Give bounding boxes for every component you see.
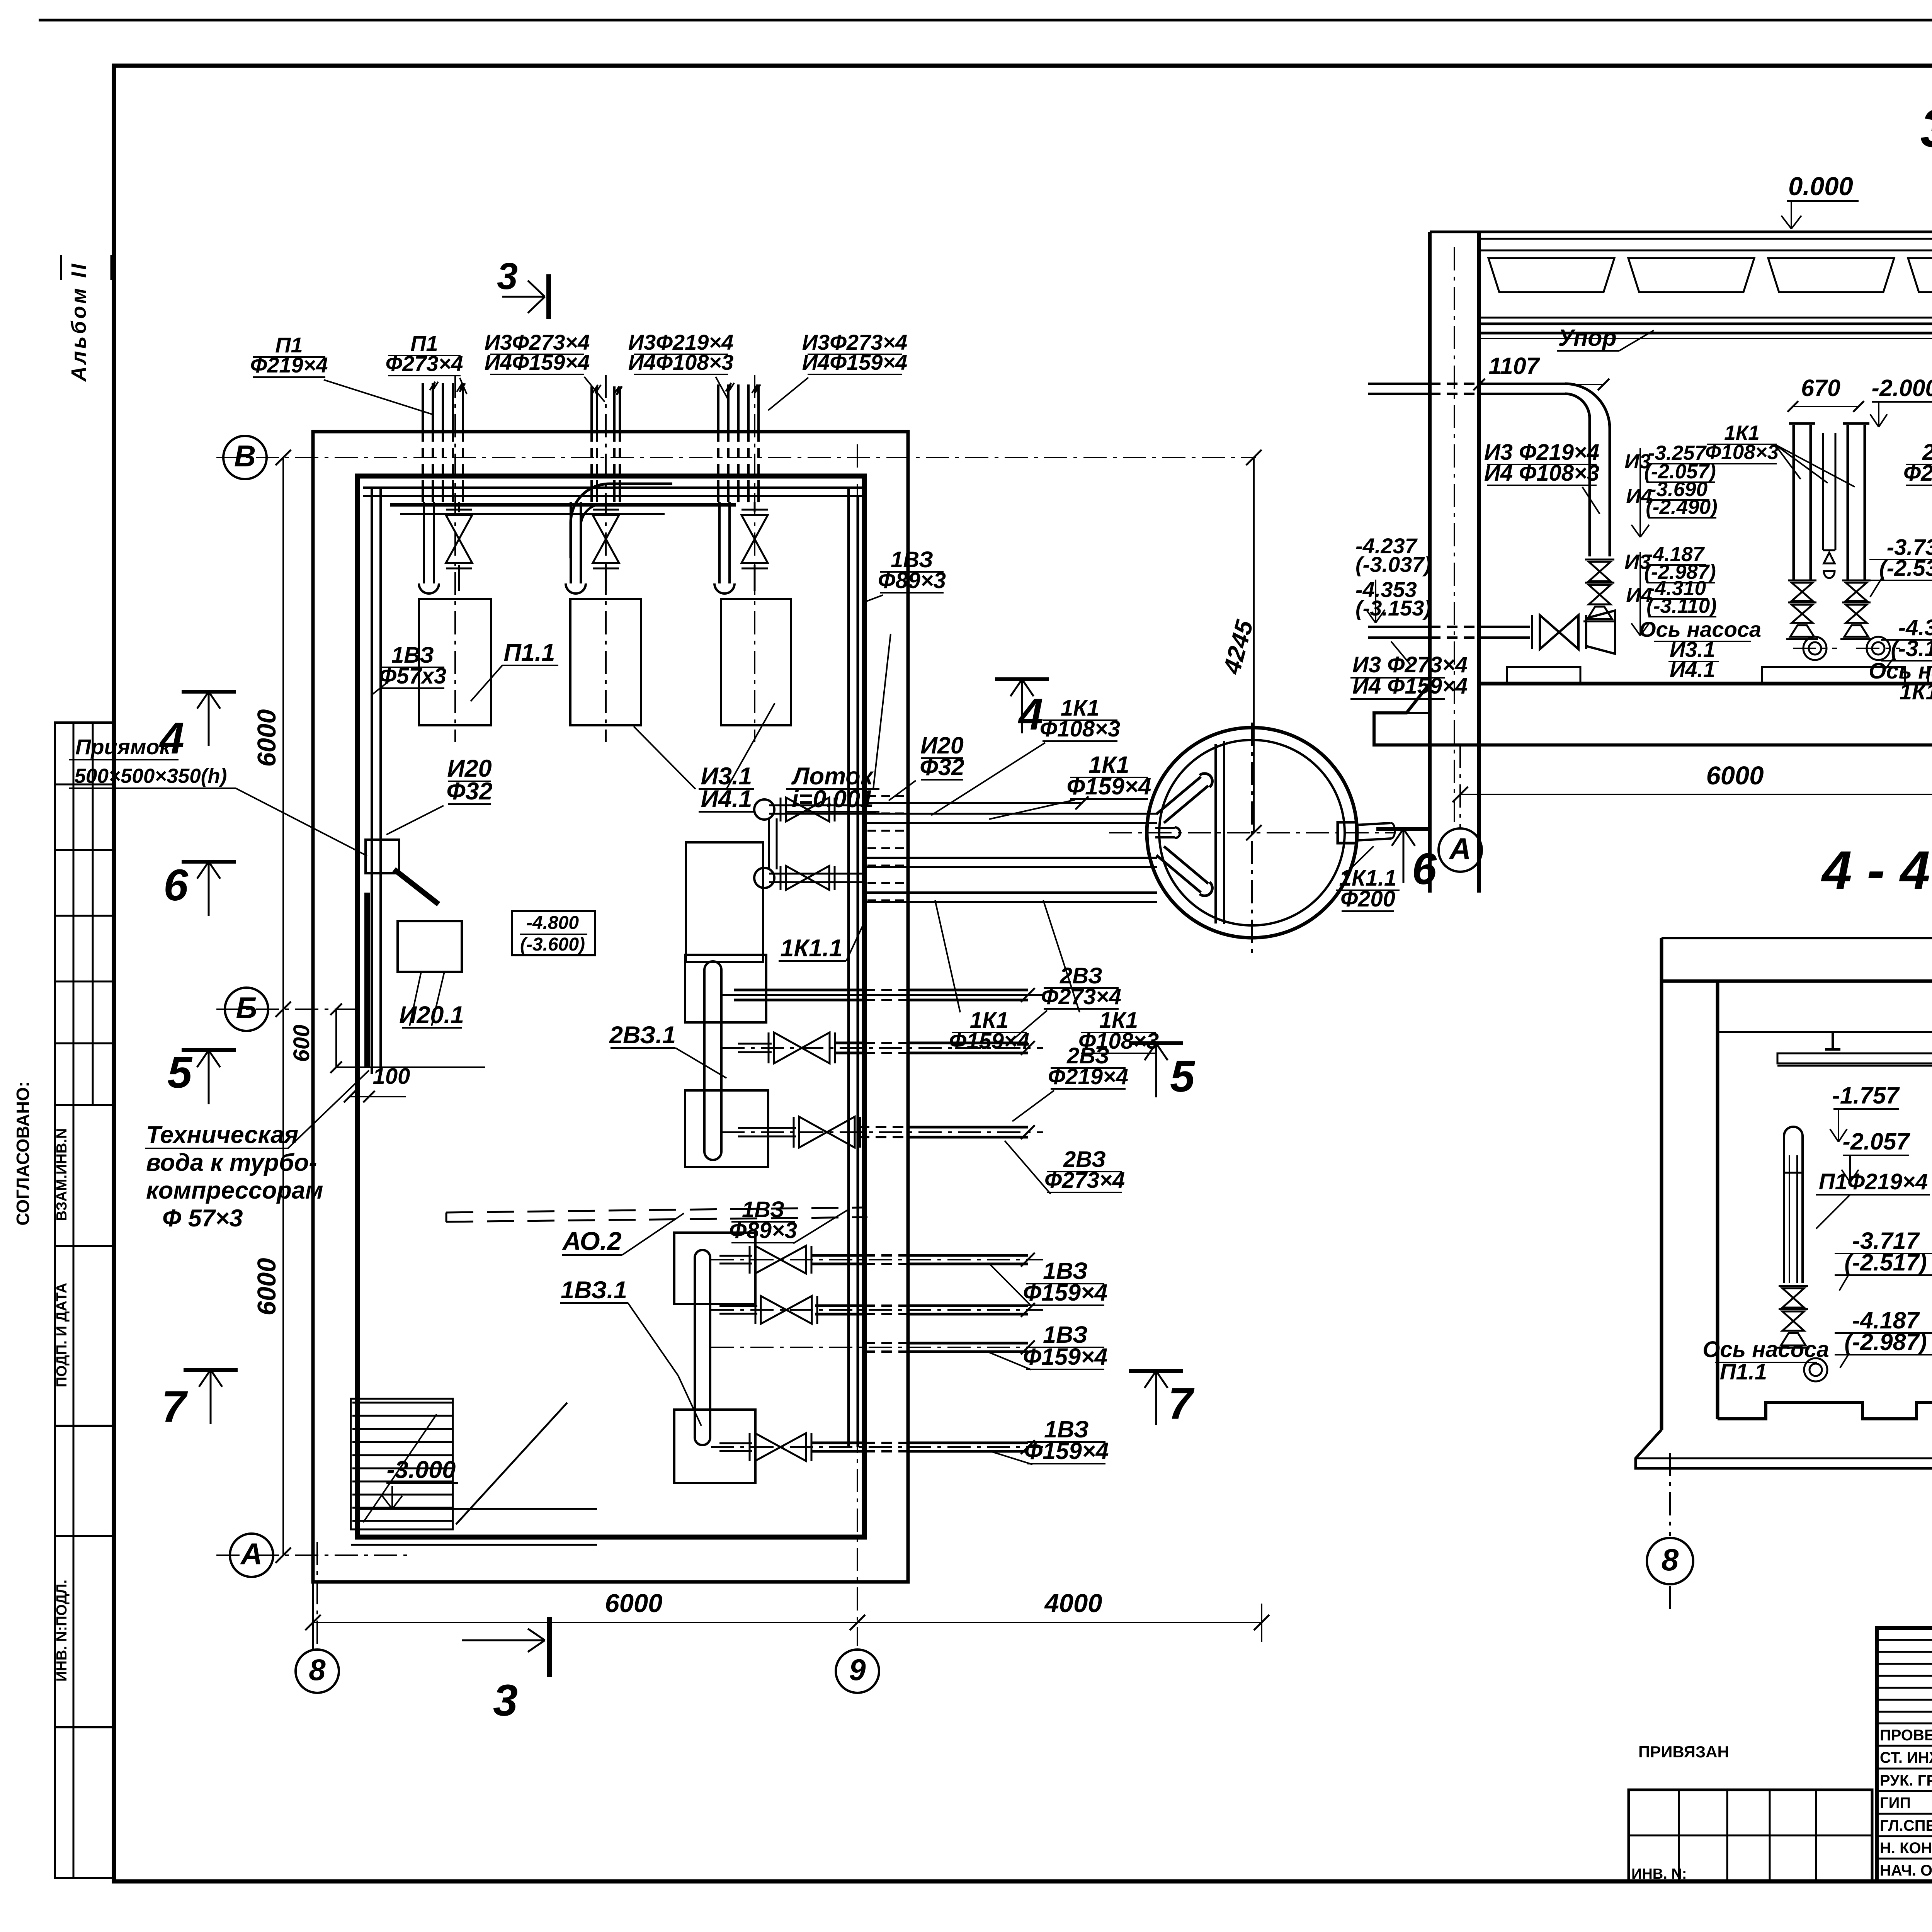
1V3.1 upper support square	[674, 1233, 755, 1304]
wall sleeve hatch at tank pipes	[867, 795, 909, 797]
1V3 row2 valve pipe	[711, 1309, 1043, 1311]
I20 f32 thin pipe to tank	[864, 802, 1082, 804]
svg-text:100: 100	[373, 1064, 410, 1089]
s4 P1 valve	[1779, 1285, 1808, 1287]
section mark 3 top	[546, 274, 551, 319]
svg-text:8: 8	[1662, 1543, 1679, 1577]
svg-text:Альбом II: Альбом II	[67, 262, 90, 382]
s3 pipe elbow down	[1565, 384, 1610, 556]
section mark 7 right	[1129, 1369, 1183, 1373]
grid circle 8	[296, 1650, 339, 1693]
s3 1K1 pump circles	[1803, 637, 1827, 660]
svg-text:4000: 4000	[1044, 1589, 1102, 1618]
title block signature rows	[1877, 1745, 1932, 1747]
section mark 5 left	[182, 1048, 236, 1052]
svg-text:3 - 3: 3 - 3	[1920, 98, 1932, 158]
svg-text:Ось насоса: Ось насоса	[1702, 1337, 1829, 1362]
grid line V	[216, 457, 1256, 458]
1K1 pipe upper to tank	[864, 822, 1157, 824]
stairs diagonal	[456, 1403, 567, 1524]
stairs arrow	[363, 1414, 437, 1522]
svg-text:Ф89×3: Ф89×3	[729, 1218, 797, 1243]
1V3 row1 valve pipe	[711, 1259, 1043, 1260]
svg-text:И4.1: И4.1	[701, 786, 752, 813]
plan inner floor edge lines bottom-left	[357, 1508, 597, 1510]
main vertical pipe run right	[847, 488, 850, 1447]
s4 inner beam line	[1718, 1031, 1932, 1033]
s3 roof panels	[1479, 250, 1932, 252]
dim 600	[335, 1009, 337, 1067]
svg-text:7: 7	[162, 1382, 188, 1432]
svg-text:Ф200: Ф200	[1340, 886, 1395, 912]
s4 grid line 8	[1669, 1453, 1671, 1536]
svg-text:СТ. ИНЖ.: СТ. ИНЖ.	[1880, 1749, 1932, 1766]
svg-text:И4 Ф108×3: И4 Ф108×3	[1484, 461, 1599, 486]
svg-text:ПРИВЯЗАН: ПРИВЯЗАН	[1638, 1743, 1729, 1761]
1K1.1 connecting pipes	[768, 818, 770, 869]
1K1.1 outline	[686, 842, 763, 962]
svg-text:А: А	[1449, 832, 1471, 866]
bottom dimension line	[313, 1622, 1262, 1623]
wall pier thick line	[364, 893, 370, 1067]
svg-text:Ф159×4: Ф159×4	[1023, 1344, 1108, 1370]
plan inner wall	[357, 476, 864, 1537]
svg-text:-2.000: -2.000	[1872, 375, 1932, 401]
s3 left column	[1428, 232, 1432, 893]
s3 pedestals	[1507, 667, 1580, 684]
left form cell vzam	[55, 1105, 114, 1246]
svg-text:7: 7	[1168, 1379, 1195, 1429]
s3 valve stack I3	[1585, 559, 1614, 561]
vertical dimension line left	[282, 457, 284, 1555]
svg-text:Ф159×4: Ф159×4	[949, 1029, 1029, 1054]
svg-text:Ф273×4: Ф273×4	[385, 351, 463, 376]
svg-text:1107: 1107	[1488, 353, 1540, 379]
plan outer wall	[313, 432, 908, 1582]
svg-text:(-3.110): (-3.110)	[1646, 595, 1717, 617]
svg-text:Ф108×3: Ф108×3	[1040, 716, 1120, 742]
tank center crosshair	[1109, 832, 1395, 833]
svg-text:НАЧ. ОТД.: НАЧ. ОТД.	[1880, 1862, 1932, 1879]
section mark 4 left	[182, 690, 236, 694]
left form column	[55, 723, 114, 1105]
svg-text:Ф219×4: Ф219×4	[250, 353, 328, 377]
svg-text:3: 3	[493, 1676, 518, 1725]
svg-text:ВЗАМ.ИНВ.N: ВЗАМ.ИНВ.N	[54, 1128, 70, 1221]
1V3 row3 pipe	[711, 1347, 1043, 1348]
svg-text:(-2.535): (-2.535)	[1879, 556, 1932, 581]
svg-text:(-2.517): (-2.517)	[1844, 1249, 1927, 1276]
svg-text:9: 9	[849, 1653, 866, 1687]
stairs outline	[351, 1399, 453, 1529]
section mark 5 right	[1129, 1041, 1183, 1045]
svg-text:П1.1: П1.1	[504, 639, 555, 666]
svg-text:Н. КОНТР.: Н. КОНТР.	[1880, 1840, 1932, 1857]
1K1 pipe lower to tank	[864, 901, 1157, 903]
s4 ground line	[1662, 937, 1932, 939]
grid circle 9	[836, 1650, 879, 1693]
tank outer circle	[1147, 728, 1357, 938]
svg-text:Упор: Упор	[1558, 325, 1617, 351]
pump riser and valve 3	[718, 502, 721, 583]
tank nozzle right	[1338, 822, 1356, 843]
svg-text:6: 6	[1412, 844, 1437, 894]
svg-text:Ф159×4: Ф159×4	[1023, 1279, 1108, 1306]
pump riser and valve 1	[423, 502, 425, 583]
svg-text:вода к турбо-: вода к турбо-	[146, 1149, 317, 1176]
svg-text:3: 3	[497, 255, 518, 297]
svg-text:6000: 6000	[252, 709, 281, 767]
svg-text:5: 5	[1170, 1052, 1196, 1101]
s4 axis circles	[1804, 1358, 1827, 1381]
svg-text:1К1.1: 1К1.1	[780, 935, 842, 962]
svg-text:И4Ф108×3: И4Ф108×3	[628, 350, 733, 374]
1K1.1 lower pipe run	[769, 881, 864, 883]
title block upper grid rows	[1877, 1639, 1932, 1641]
s3 foundation slab	[1374, 684, 1932, 745]
s4 pipe P1	[1783, 1136, 1785, 1283]
svg-text:(-2.490): (-2.490)	[1646, 496, 1718, 519]
2V3 row2 pipe with valve	[721, 1047, 1043, 1049]
svg-text:6000: 6000	[1706, 761, 1764, 790]
svg-text:И4Ф159×4: И4Ф159×4	[485, 350, 590, 374]
pump block I3.1	[570, 599, 641, 725]
svg-text:(-3.037): (-3.037)	[1355, 552, 1431, 577]
s3 floor line	[1479, 682, 1932, 685]
svg-text:ГИП: ГИП	[1880, 1794, 1911, 1811]
svg-text:5: 5	[167, 1048, 193, 1097]
svg-text:И4.1: И4.1	[1670, 657, 1715, 682]
svg-text:600: 600	[289, 1025, 314, 1062]
svg-text:Б: Б	[236, 991, 257, 1025]
pryamok square	[366, 840, 399, 873]
s3 left entering pipes upper	[1368, 393, 1430, 395]
s4 ceiling thick line	[1662, 980, 1932, 983]
grid line B	[216, 1009, 363, 1010]
1K1 pipe middle to tank	[864, 866, 1157, 868]
svg-text:(-3.150): (-3.150)	[1891, 636, 1932, 661]
svg-text:П1.1: П1.1	[1720, 1359, 1767, 1384]
s4 monorail beam	[1777, 1053, 1932, 1063]
s3 roof top line	[1430, 231, 1932, 233]
svg-text:Ф219×4: Ф219×4	[1048, 1064, 1128, 1089]
svg-text:-2.057: -2.057	[1843, 1128, 1911, 1155]
section mark 6 left	[182, 860, 236, 864]
svg-text:СОГЛАСОВАНО:: СОГЛАСОВАНО:	[13, 1081, 33, 1225]
s4 floor with pedestals	[1718, 1403, 1932, 1419]
s3 roof slab second line	[1479, 238, 1932, 240]
svg-text:670: 670	[1801, 375, 1840, 401]
grid line 9 axis	[857, 444, 858, 1646]
dim 100	[350, 1096, 406, 1097]
s3 crane rails	[1479, 323, 1932, 325]
manifold elbow into riser 2	[571, 484, 672, 558]
svg-text:Ф219×4: Ф219×4	[1903, 461, 1932, 486]
svg-text:И4 Ф159×4: И4 Ф159×4	[1352, 673, 1468, 699]
left form cell podp	[55, 1246, 114, 1426]
s3 main inlet valve	[1540, 615, 1578, 649]
s3 left lower pipes	[1368, 636, 1430, 639]
2V3.1 pump body	[703, 970, 706, 1151]
1V3.1 lower support square	[674, 1410, 755, 1483]
grid line A	[216, 1554, 410, 1556]
svg-text:Ф32: Ф32	[920, 754, 964, 780]
svg-text:ПОДП. И ДАТА: ПОДП. И ДАТА	[54, 1283, 70, 1388]
svg-text:(-3.600): (-3.600)	[520, 934, 585, 955]
section mark 3 bottom	[547, 1617, 552, 1677]
svg-text:Приямок: Приямок	[75, 735, 171, 759]
2V3 row1 pipe	[721, 994, 1043, 996]
svg-text:2ВЗ.1: 2ВЗ.1	[609, 1022, 676, 1049]
svg-text:ГЛ.СПЕЦ.: ГЛ.СПЕЦ.	[1880, 1817, 1932, 1834]
1V3.1 pump body	[694, 1258, 696, 1437]
grid circle A	[230, 1534, 273, 1577]
svg-text:А: А	[240, 1537, 262, 1571]
grid circle B	[225, 988, 268, 1031]
svg-text:4 - 4: 4 - 4	[1821, 840, 1930, 900]
s4 foundation	[1636, 1430, 1932, 1468]
svg-text:6000: 6000	[252, 1258, 281, 1315]
section mark 7 left	[184, 1368, 238, 1372]
pump block P1.1	[419, 599, 491, 725]
pump block 3	[721, 599, 791, 725]
s4 grid circle 8	[1647, 1538, 1693, 1584]
svg-text:-3.000: -3.000	[387, 1456, 456, 1483]
s3 grid extensions	[1454, 247, 1455, 829]
2V3.1 lower support square	[685, 1090, 768, 1167]
level box -4.800	[512, 911, 595, 955]
svg-text:АО.2: АО.2	[561, 1227, 621, 1256]
s4 monorail hangers	[1832, 1032, 1834, 1049]
svg-text:И4Ф159×4: И4Ф159×4	[802, 350, 907, 374]
svg-text:В: В	[234, 439, 256, 473]
I20.1 equipment box	[398, 921, 462, 972]
stairs treads	[352, 1402, 452, 1404]
svg-text:0.000: 0.000	[1788, 172, 1853, 201]
grid circle V	[223, 436, 267, 479]
title block outer	[1877, 1628, 1932, 1881]
svg-text:ИНВ. N:: ИНВ. N:	[1631, 1866, 1687, 1882]
svg-text:компрессорам: компрессорам	[146, 1177, 323, 1204]
AO.2 dashed channel	[446, 1207, 862, 1213]
svg-text:Ф 57×3: Ф 57×3	[162, 1205, 243, 1232]
svg-text:П1Ф219×4: П1Ф219×4	[1819, 1169, 1928, 1194]
svg-text:-4.800: -4.800	[526, 913, 579, 933]
svg-text:1ВЗ.1: 1ВЗ.1	[561, 1277, 627, 1304]
svg-text:Ф159×4: Ф159×4	[1024, 1438, 1109, 1464]
pump riser and valve 2	[570, 502, 572, 583]
svg-text:Ф273×4: Ф273×4	[1041, 984, 1121, 1009]
svg-text:РУК. ГР.: РУК. ГР.	[1880, 1772, 1932, 1789]
svg-text:-1.757: -1.757	[1832, 1082, 1900, 1109]
grid line 8 axis	[316, 1542, 318, 1650]
left form cell inv small	[55, 1426, 114, 1536]
pump axes dashdot	[454, 375, 456, 742]
svg-text:Ф89×3: Ф89×3	[878, 568, 946, 593]
svg-text:Ф273×4: Ф273×4	[1044, 1168, 1125, 1193]
svg-text:Техническая: Техническая	[146, 1121, 298, 1148]
sheet top edge line	[39, 19, 1932, 22]
left form cell inv podl	[55, 1536, 114, 1727]
svg-text:Ф159×4: Ф159×4	[1067, 773, 1151, 799]
manifold pipes top	[363, 486, 862, 489]
section mark 6 right plan	[1376, 827, 1430, 831]
left form cell bottom	[55, 1727, 114, 1878]
svg-text:ПРОВЕР.: ПРОВЕР.	[1880, 1727, 1932, 1744]
1K1.1 upper pipe run	[769, 813, 864, 815]
svg-text:(-3.153): (-3.153)	[1355, 596, 1431, 620]
attachment mini table	[1629, 1790, 1872, 1881]
svg-text:(-2.987): (-2.987)	[1844, 1329, 1927, 1355]
1V3 row4 valve pipe	[711, 1446, 1043, 1448]
pipe cluster 2 above wall	[590, 386, 593, 432]
s3 1K1 riser pair	[1793, 425, 1795, 580]
tank left inlet stub	[1155, 836, 1175, 838]
svg-text:Ф108×3: Ф108×3	[1705, 441, 1779, 464]
s3 grid circle A	[1439, 828, 1482, 872]
tank bellmouth upper	[1155, 770, 1216, 825]
svg-text:ИНВ. N:ПОДЛ.: ИНВ. N:ПОДЛ.	[54, 1580, 70, 1682]
tank bellmouth lower	[1155, 845, 1216, 899]
s3 1K1 valves	[1788, 580, 1816, 582]
dim 4245	[1253, 457, 1255, 833]
s4 left column	[1660, 938, 1663, 1430]
pipe cluster 3 above wall	[717, 384, 719, 432]
2V3.1 upper support square	[685, 955, 766, 1022]
pipe cluster 1 above wall	[422, 383, 424, 432]
svg-text:8: 8	[309, 1653, 326, 1687]
svg-text:500×500×350(h): 500×500×350(h)	[75, 765, 227, 787]
2V3 row3 pipe with valve	[721, 1131, 1043, 1133]
tank inner circle	[1159, 740, 1345, 925]
svg-text:Ф32: Ф32	[446, 778, 492, 805]
s3 roof bottom line	[1479, 317, 1932, 319]
svg-text:6000: 6000	[605, 1589, 662, 1618]
svg-text:Ф108×3: Ф108×3	[1078, 1029, 1159, 1054]
s3 bottom dim line	[1460, 794, 1932, 795]
section mark 4 right	[995, 677, 1049, 681]
tank partition	[1214, 744, 1217, 923]
svg-text:6: 6	[163, 861, 189, 910]
svg-text:Ф57х3: Ф57х3	[379, 663, 446, 689]
